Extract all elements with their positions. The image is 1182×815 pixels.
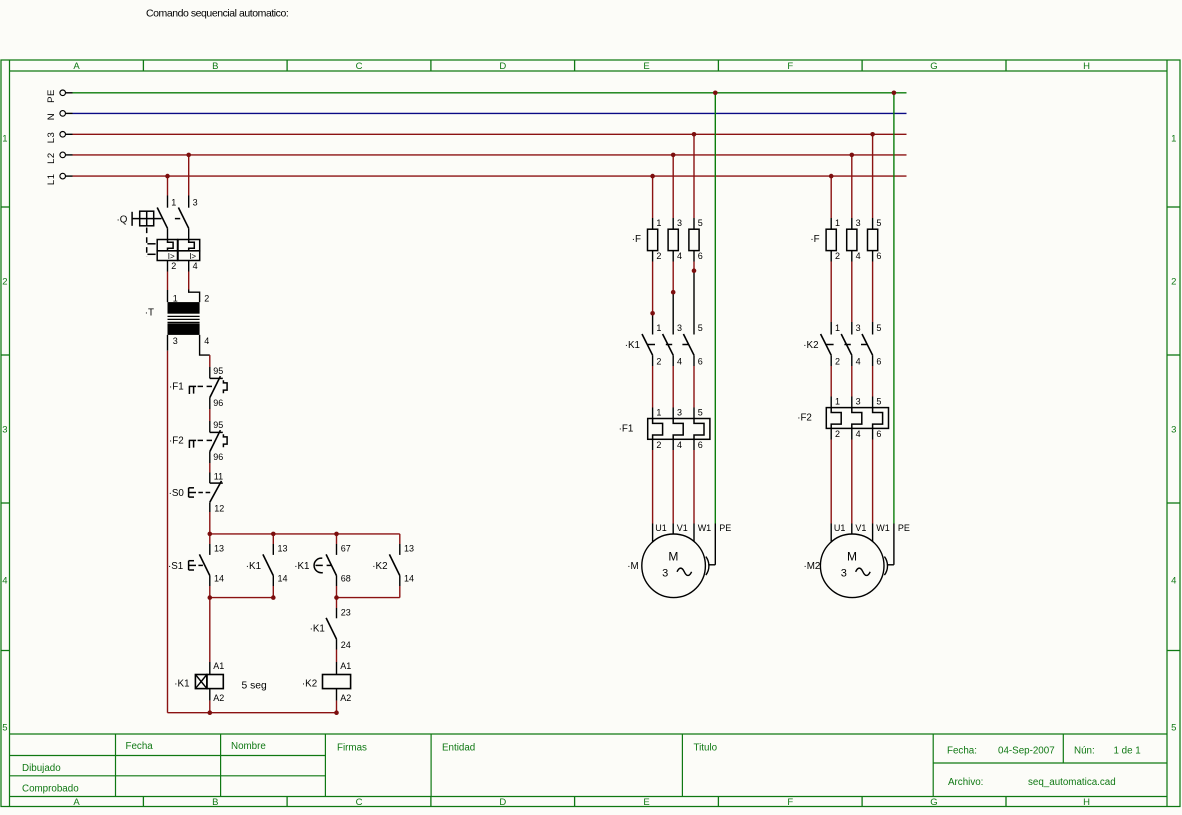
svg-text:14: 14 [278,574,288,584]
wire to K1 coil A1 [209,598,211,675]
transformer T core lines [168,316,200,322]
transformer T secondary winding [168,323,200,335]
svg-text:E: E [643,61,649,72]
wires contactor K2 to overload F2 [831,355,872,407]
svg-text:Fecha: Fecha [126,741,154,752]
svg-text:·M2: ·M2 [804,561,821,572]
svg-text:1: 1 [656,323,661,333]
svg-text:M: M [668,550,678,564]
svg-text:2: 2 [656,357,661,367]
breaker Q label [117,214,128,225]
svg-text:Titulo: Titulo [694,743,718,754]
wires overload F1 to motor M [653,439,694,542]
svg-text:3: 3 [856,218,861,228]
svg-text:4: 4 [856,357,861,367]
wire rail taps to fuses branch 1 [653,134,694,229]
svg-text:2: 2 [2,277,7,288]
svg-text:3: 3 [662,568,668,580]
breaker Q thermal element boxes [157,240,200,251]
svg-text:2: 2 [171,261,176,271]
svg-text:13: 13 [214,543,224,553]
svg-text:5 seg: 5 seg [242,680,267,691]
svg-text:4: 4 [856,429,861,439]
wire 24 to K2 coil A1 [336,662,338,675]
svg-text:seq_automatica.cad: seq_automatica.cad [1028,777,1116,788]
svg-text:L2: L2 [46,152,57,164]
svg-text:2: 2 [835,357,840,367]
wire Q pole1 to transformer prim 1 [167,261,169,303]
frame row numbers right [1171,134,1176,734]
title block grid [10,734,1168,797]
branch top bus wire [210,533,400,535]
svg-text:11: 11 [214,471,223,481]
svg-text:F: F [787,797,793,808]
svg-text:I>: I> [168,252,175,261]
svg-text:6: 6 [698,251,703,261]
svg-text:Fecha:: Fecha: [947,746,977,757]
svg-text:U1: U1 [834,523,846,533]
fuse group F branch 2 [810,218,881,261]
svg-text:96: 96 [213,452,223,462]
supply rail L1 [46,173,907,185]
svg-text:4: 4 [856,251,861,261]
svg-text:1: 1 [656,218,661,228]
svg-text:·Q: ·Q [117,214,128,225]
svg-text:N: N [46,113,57,120]
svg-text:6: 6 [698,440,703,450]
svg-text:H: H [1083,797,1090,808]
svg-text:1: 1 [835,218,840,228]
svg-text:1: 1 [835,397,840,407]
motor M2 [804,523,910,597]
overload relay F1 [619,408,710,451]
svg-text:·K2: ·K2 [302,678,317,689]
svg-text:95: 95 [213,366,223,376]
svg-text:2: 2 [656,251,661,261]
coil return bus wire [168,712,337,714]
svg-text:1: 1 [2,134,7,145]
svg-text:68: 68 [341,574,351,584]
svg-text:1: 1 [171,197,176,207]
svg-text:D: D [499,797,506,808]
svg-text:·K1: ·K1 [625,340,640,351]
wire K2 coil A2 to return bus [336,689,338,713]
svg-text:3: 3 [193,197,198,207]
svg-text:F: F [787,61,793,72]
svg-text:M: M [847,550,857,564]
svg-text:2: 2 [835,429,840,439]
svg-text:5: 5 [2,723,7,734]
svg-text:3: 3 [677,408,682,418]
rail junction dots [165,91,896,179]
wire S0 to parallel bus [209,512,211,534]
svg-text:·M: ·M [627,561,638,572]
breaker Q pole 2 contact [178,197,197,239]
svg-text:H: H [1083,61,1090,72]
motor M [627,523,731,597]
svg-text:·F2: ·F2 [169,436,184,447]
svg-text:A2: A2 [213,693,224,703]
svg-text:5: 5 [698,323,703,333]
aux contact K2 NO 13/14 [372,534,414,598]
svg-text:C: C [356,797,363,808]
breaker Q actuator [132,211,180,226]
svg-text:95: 95 [213,420,223,430]
svg-text:13: 13 [278,543,288,553]
svg-text:I>: I> [189,252,196,261]
svg-text:·F: ·F [632,234,641,245]
control circuit junction dots [208,532,339,715]
branch lower bus wire left [210,597,273,599]
wires fuses to contactor branch 1 [653,251,694,335]
svg-text:2: 2 [204,294,209,304]
svg-text:3: 3 [2,425,7,436]
supply rail PE [46,89,907,103]
svg-text:G: G [930,61,937,72]
svg-text:2: 2 [835,251,840,261]
svg-text:6: 6 [876,357,881,367]
svg-text:3: 3 [856,323,861,333]
svg-text:·K1: ·K1 [310,624,325,635]
svg-text:4: 4 [677,440,682,450]
wire transformer sec 4 jog to control chain [200,335,210,367]
svg-text:4: 4 [677,357,682,367]
transformer T terminal labels 1 2 [173,294,210,304]
svg-text:A1: A1 [213,661,224,671]
breaker Q pole 1 contact [157,197,176,239]
svg-text:23: 23 [341,607,351,617]
svg-text:67: 67 [341,543,351,553]
pushbutton S1 NO 13/14 [168,534,224,598]
svg-text:6: 6 [876,251,881,261]
PE wire to motor M [708,93,715,565]
contactor coil K2 [302,661,351,703]
svg-text:Comando sequencial automatico:: Comando sequencial automatico: [146,8,288,20]
thermal NC contact F1 95/96 [169,366,227,409]
svg-text:4: 4 [677,251,682,261]
svg-text:1: 1 [835,323,840,333]
svg-text:5: 5 [698,218,703,228]
svg-text:C: C [356,61,363,72]
svg-text:·K1: ·K1 [294,561,309,572]
svg-text:14: 14 [404,574,414,584]
svg-text:·K2: ·K2 [372,561,387,572]
breaker Q trip linkage (dashed) [147,228,156,258]
svg-text:·T: ·T [145,308,154,319]
svg-text:1: 1 [173,294,178,304]
svg-text:L3: L3 [46,132,57,144]
svg-text:·S1: ·S1 [168,561,183,572]
transformer T terminal labels 3 4 [173,336,210,346]
thermal NC contact F2 95/96 [169,420,227,463]
breaker Q magnetic trip boxes I> [157,251,200,261]
svg-text:B: B [212,61,218,72]
svg-text:2: 2 [1171,277,1176,288]
svg-text:PE: PE [46,89,57,103]
svg-text:·F1: ·F1 [169,382,184,393]
svg-text:3: 3 [173,336,178,346]
timed contact K1 67/68 [294,534,351,598]
svg-text:2: 2 [656,440,661,450]
svg-text:·K2: ·K2 [803,340,818,351]
wire F1 to F2 [209,409,211,421]
svg-text:3: 3 [856,397,861,407]
pushbutton S0 NC 11/12 [169,471,225,513]
transformer T label [145,308,154,319]
wire transformer sec 3 down left side to coil return bus [167,335,169,713]
supply rail L2 [46,152,907,164]
fuse group F branch 1 [632,218,703,261]
svg-text:Archivo:: Archivo: [948,777,983,788]
svg-text:Comprobado: Comprobado [22,784,79,795]
svg-text:5: 5 [876,397,881,407]
svg-text:3: 3 [1171,425,1176,436]
svg-text:1: 1 [656,408,661,418]
svg-text:PE: PE [898,523,910,533]
svg-text:1: 1 [1171,134,1176,145]
aux contact K1 NO 23/24 [310,598,351,662]
svg-text:Nombre: Nombre [231,741,266,752]
svg-text:04-Sep-2007: 04-Sep-2007 [998,746,1055,757]
svg-text:5: 5 [1171,723,1176,734]
svg-text:A: A [73,797,80,808]
sheet heading text [146,8,288,20]
wires contactor K1 to overload F1 [653,355,694,418]
svg-text:B: B [212,797,218,808]
supply rail L3 [46,132,907,144]
svg-text:4: 4 [193,261,198,271]
svg-text:U1: U1 [655,523,667,533]
svg-text:·K1: ·K1 [246,561,261,572]
svg-text:1 de 1: 1 de 1 [1114,746,1141,757]
frame row numbers left [2,134,7,734]
PE wire to motor M2 [887,93,894,565]
svg-text:·F1: ·F1 [619,424,634,435]
frame column letters bottom [73,797,1090,808]
svg-text:·K1: ·K1 [174,678,189,689]
contactor main contacts ·K2 [803,323,881,366]
wire Q pole2 to transformer prim 2 [189,261,200,303]
svg-text:Entidad: Entidad [442,743,475,754]
svg-text:3: 3 [677,323,682,333]
svg-text:G: G [930,797,937,808]
svg-text:12: 12 [214,503,224,513]
svg-text:L1: L1 [46,174,57,186]
frame column letters top [73,61,1090,72]
svg-text:Firmas: Firmas [337,743,367,754]
svg-text:6: 6 [698,357,703,367]
breaker Q bottom terminals [171,261,197,271]
svg-text:14: 14 [214,574,224,584]
branch lower bus wire right [337,597,400,599]
wire L1 tap to Q pole 1 [167,176,169,208]
svg-text:PE: PE [719,523,731,533]
wires fuses to contactor branch 2 [831,251,872,335]
svg-text:13: 13 [404,543,414,553]
svg-text:5: 5 [876,218,881,228]
wire rail taps to fuses branch 2 [831,134,872,229]
svg-text:4: 4 [2,576,7,587]
wire F2 to S0 [209,463,211,473]
svg-text:6: 6 [876,429,881,439]
svg-text:5: 5 [698,408,703,418]
svg-text:W1: W1 [876,523,890,533]
svg-text:V1: V1 [677,523,688,533]
svg-text:·S0: ·S0 [169,488,185,499]
supply rail N [46,111,907,121]
svg-text:3: 3 [841,568,847,580]
svg-text:Nún:: Nún: [1074,746,1095,757]
title block labels [22,741,1141,795]
contactor main contacts ·K1 [625,323,703,366]
wire L2 tap to Q pole 2 [188,155,190,208]
svg-text:W1: W1 [698,523,712,533]
svg-text:A: A [73,61,80,72]
svg-text:Dibujado: Dibujado [22,763,61,774]
aux contact K1 NO 13/14 [246,534,288,598]
svg-text:D: D [499,61,506,72]
overload relay F2 [797,397,888,440]
timer coil K1 with 5 seg [174,661,267,703]
wire junction dots branch 1 [650,268,696,315]
svg-text:4: 4 [1171,576,1176,587]
svg-text:·F2: ·F2 [797,413,812,424]
transformer T primary winding [168,302,200,314]
svg-text:E: E [643,797,649,808]
svg-text:5: 5 [876,323,881,333]
wires overload F2 to motor M2 [831,428,872,542]
svg-text:A1: A1 [340,661,351,671]
svg-text:96: 96 [213,398,223,408]
svg-text:24: 24 [341,640,351,650]
wire K1 coil A2 to return bus [209,689,211,713]
svg-text:·F: ·F [810,234,819,245]
svg-text:V1: V1 [855,523,866,533]
svg-text:A2: A2 [340,693,351,703]
svg-text:4: 4 [204,336,209,346]
svg-text:3: 3 [677,218,682,228]
